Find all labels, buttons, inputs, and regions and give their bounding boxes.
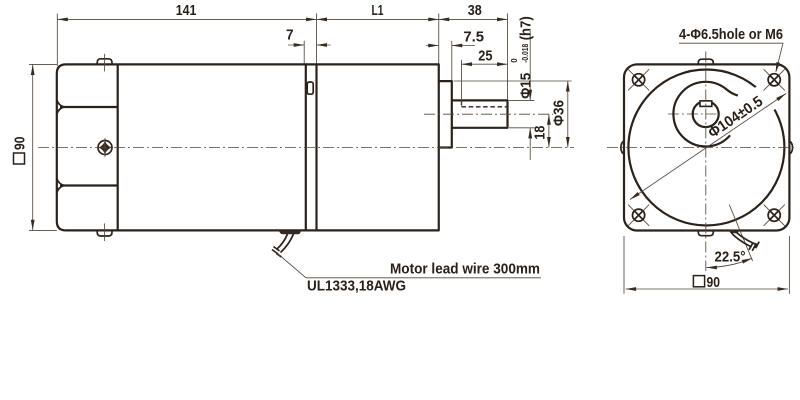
svg-text:22.5°: 22.5°	[715, 249, 746, 266]
mounting hole bottom-right	[764, 205, 785, 226]
dim 25 line	[462, 63, 508, 65]
output shaft (side view)	[452, 100, 508, 127]
svg-text:L1: L1	[372, 2, 384, 19]
vertical centerline	[705, 52, 707, 272]
dim sq90 front text	[693, 276, 704, 287]
label underline and leader	[679, 43, 783, 71]
svg-text:90: 90	[12, 137, 29, 151]
dim sq90 front extension lines	[624, 236, 789, 294]
gear case front cover edge	[117, 64, 119, 230]
svg-text:90: 90	[707, 274, 721, 291]
dim 7 line	[288, 44, 331, 46]
top case screw head	[97, 59, 112, 65]
mounting hole top-right	[764, 69, 785, 90]
case rib line upper	[57, 100, 118, 114]
svg-text:UL1333,18AWG: UL1333,18AWG	[307, 278, 406, 295]
dim sq90 front line	[626, 288, 788, 290]
left case screw (front)	[621, 141, 624, 154]
dim 38 extension	[507, 14, 509, 100]
shaft front centerline	[668, 113, 748, 115]
dim L1 extension	[438, 14, 440, 64]
case rib line lower	[57, 178, 118, 192]
bottom screw axis	[104, 223, 106, 241]
horizontal centerline	[607, 147, 797, 149]
front wire end ticks	[749, 242, 759, 251]
front wire grommet	[730, 230, 739, 234]
dim phi36 line	[567, 81, 569, 148]
svg-text:7: 7	[286, 27, 294, 44]
gear case body (side view)	[57, 64, 306, 230]
dim 141 line	[57, 18, 316, 20]
svg-text:141: 141	[176, 2, 197, 19]
svg-text:38: 38	[468, 2, 482, 19]
dim sq90 left text	[12, 137, 29, 165]
dim phi15 0/-0.018 (h7) text	[510, 16, 534, 99]
top screw axis	[104, 54, 106, 72]
svg-text:Φ15: Φ15	[517, 73, 534, 99]
dim 141 extension lines	[57, 14, 316, 67]
rear bearing boss	[439, 81, 452, 147]
svg-text:18: 18	[532, 126, 549, 140]
svg-text:4-Φ6.5hole or M6: 4-Φ6.5hole or M6	[679, 26, 783, 43]
dim phi15 extension lines	[509, 100, 535, 127]
22.5 deg arc	[706, 258, 752, 267]
gear case circle	[628, 70, 784, 226]
leader line for lead wire label	[278, 254, 542, 278]
right case screw (front)	[789, 141, 792, 154]
mounting hole top-left	[628, 69, 649, 90]
dim phi36 extension	[454, 80, 572, 82]
bottom case screw (front)	[698, 231, 713, 236]
dim 18 text	[532, 126, 549, 140]
white mask under phi104 text	[698, 81, 780, 150]
svg-text:0: 0	[510, 58, 519, 63]
motor body	[317, 64, 439, 230]
front lead wires	[731, 230, 756, 247]
dim 25 extension	[461, 60, 463, 107]
mounting hole bottom-left	[628, 205, 649, 226]
shaft circle (front)	[693, 101, 719, 127]
dim 38 line	[439, 18, 508, 20]
svg-text:Φ36: Φ36	[551, 100, 568, 126]
motor centerline	[38, 147, 574, 149]
dim 7.5 extension	[451, 41, 453, 80]
shaft centerline	[424, 113, 553, 115]
bottom case screw head	[97, 230, 112, 236]
dim sq90 left extension lines	[29, 64, 57, 230]
lead wires	[277, 234, 294, 253]
lead wire grommet	[279, 230, 302, 234]
dim 18 line	[548, 114, 550, 147]
svg-text:(h7): (h7)	[517, 16, 534, 40]
svg-text:25: 25	[478, 47, 492, 64]
shaft flat hidden line	[462, 100, 508, 106]
mounting plate	[306, 64, 317, 230]
dim 7.5 line	[426, 45, 475, 47]
top case screw (front)	[698, 59, 713, 64]
dim phi104 line	[630, 94, 786, 200]
dim L1 line	[317, 18, 439, 20]
keyway flat	[700, 101, 712, 107]
22.5 deg ray	[729, 205, 752, 262]
wire end ticks	[272, 247, 282, 258]
terminal detail on plate	[307, 82, 313, 94]
dim sq90 left line	[32, 64, 34, 230]
dim phi36 text	[551, 100, 568, 126]
svg-text:-0.018: -0.018	[521, 43, 530, 62]
flange outline	[624, 64, 789, 230]
dim phi15 line	[529, 31, 531, 160]
center cover screw	[98, 138, 112, 157]
svg-text:Motor lead wire 300mm: Motor lead wire 300mm	[390, 261, 540, 278]
svg-text:7.5: 7.5	[463, 29, 484, 46]
shaft boss circle with gap	[673, 82, 737, 147]
dim phi104 text	[705, 93, 766, 142]
dim 7 extension	[303, 41, 305, 64]
